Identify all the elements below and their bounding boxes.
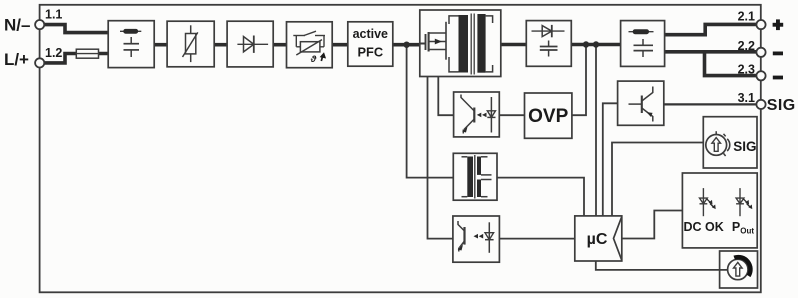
svg-text:3.1: 3.1 bbox=[738, 91, 755, 105]
svg-text:2.3: 2.3 bbox=[738, 63, 755, 77]
svg-text:active: active bbox=[353, 27, 388, 41]
svg-text:P: P bbox=[732, 220, 740, 234]
svg-text:N/–: N/– bbox=[4, 16, 30, 35]
svg-text:ϑ: ϑ bbox=[310, 54, 317, 65]
svg-text:Out: Out bbox=[740, 227, 754, 236]
svg-text:SIG: SIG bbox=[733, 139, 756, 154]
svg-text:1.2: 1.2 bbox=[45, 46, 62, 60]
svg-text:L/+: L/+ bbox=[4, 50, 29, 69]
svg-text:2.2: 2.2 bbox=[738, 39, 755, 53]
svg-text:µC: µC bbox=[587, 231, 608, 248]
svg-text:1.1: 1.1 bbox=[45, 8, 62, 22]
svg-text:OVP: OVP bbox=[528, 106, 568, 127]
svg-text:DC OK: DC OK bbox=[684, 220, 724, 234]
svg-text:2.1: 2.1 bbox=[738, 10, 755, 24]
svg-text:SIG: SIG bbox=[767, 97, 796, 114]
svg-text:PFC: PFC bbox=[357, 44, 383, 59]
